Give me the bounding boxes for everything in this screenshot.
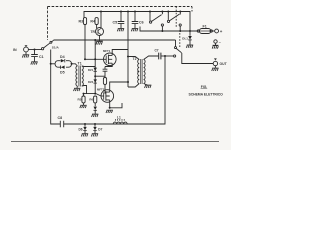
wire zener mid to RC column	[95, 75, 105, 77]
wire +12V rail	[84, 12, 190, 32]
svg-text:T1: T1	[78, 62, 82, 66]
svg-text:DL1: DL1	[182, 36, 188, 40]
svg-text:C8: C8	[58, 116, 63, 120]
ground under IN jack	[22, 55, 29, 58]
wire rail down to TR1	[100, 12, 102, 29]
wire to T2 primary bottom	[128, 84, 139, 88]
dashed enclosure left	[47, 7, 49, 41]
resistor R5	[82, 94, 85, 105]
wire T1 secondary bottom to gate line 2	[82, 86, 87, 94]
transformer T2	[138, 59, 145, 84]
ground under DL1	[186, 45, 193, 48]
ground under R5	[80, 105, 87, 108]
svg-text:C7: C7	[155, 49, 159, 53]
wire MFT1 drain to T2 primary top	[112, 50, 128, 54]
wire bottom return bus	[51, 50, 165, 125]
ground under minus terminal	[212, 45, 218, 48]
connector IN jack J1	[24, 46, 29, 55]
svg-text:S1/A: S1/A	[52, 46, 60, 50]
relay changeover arm to OUT	[175, 47, 214, 64]
wire gate drive vertical	[94, 40, 96, 94]
ground under MFT2	[106, 110, 113, 113]
inductor L1	[113, 119, 127, 124]
node T2 centre tap	[137, 71, 139, 73]
ground under C5	[117, 29, 124, 32]
svg-text:D5: D5	[60, 71, 65, 75]
mosfet MFT2	[101, 90, 114, 103]
svg-text:D6: D6	[79, 128, 83, 132]
zener DZ1	[94, 68, 97, 72]
contact circle relay NO lower	[174, 55, 176, 57]
capacitor C2 in RC column	[103, 67, 108, 78]
wire loop to T1 primary top	[72, 64, 78, 66]
diode D7	[93, 124, 96, 133]
transformer T1	[76, 66, 83, 87]
resistor R4	[95, 18, 98, 29]
wire rail down to T2 primary column	[127, 12, 129, 88]
node rail corner joins fuse line	[189, 30, 191, 32]
svg-text:C5: C5	[113, 21, 118, 25]
diode D5 bottom branch of loop	[55, 64, 72, 69]
svg-text:R4: R4	[90, 20, 95, 24]
node input junction	[34, 49, 36, 51]
capacitor C6	[132, 11, 139, 29]
wire MFT2 drain to T2 primary bottom	[110, 82, 128, 90]
wire gate line MFT2	[84, 94, 102, 96]
svg-text:IN: IN	[13, 48, 17, 52]
svg-text:R3: R3	[79, 20, 84, 24]
node D7 top	[94, 123, 96, 125]
wire MFT1 source to C2 top	[105, 65, 112, 67]
capacitor C7 series	[159, 53, 165, 60]
node T2 primary top	[127, 56, 129, 58]
wire gate line MFT1	[85, 58, 103, 60]
svg-text:T2: T2	[133, 57, 137, 61]
node C7 output	[164, 55, 166, 57]
svg-text:SCHEMA ELETTRICO: SCHEMA ELETTRICO	[189, 92, 224, 96]
wire C7 node to relay NO contact	[165, 55, 173, 57]
ground under C6	[131, 29, 138, 32]
resistor R6	[94, 96, 97, 106]
resistor R3	[83, 18, 86, 60]
wire switched line S1/A to relay	[54, 39, 176, 41]
wire relay contacts to fuse line	[140, 27, 198, 32]
led DL1	[188, 31, 192, 45]
ground under T2 secondary	[145, 85, 152, 88]
node loop left on input drop	[50, 63, 52, 65]
node rail to TR1	[100, 11, 102, 13]
node T2 primary bottom join	[127, 81, 129, 83]
svg-text:R5: R5	[78, 98, 82, 102]
svg-text:F1: F1	[203, 25, 207, 29]
wire T1 secondary top to zener chain	[82, 65, 95, 68]
svg-text:–: –	[219, 40, 221, 44]
terminal plus	[212, 29, 218, 33]
ground under D7	[91, 134, 98, 137]
node gate drive drop	[94, 39, 96, 41]
fuse F1	[197, 29, 212, 34]
jack OUT	[213, 59, 217, 68]
zener DZ2	[94, 79, 97, 83]
mosfet MFT1	[104, 53, 117, 66]
dashed enclosure top	[48, 6, 193, 8]
wire to diode loop	[51, 63, 55, 65]
wire input to switch	[29, 49, 43, 51]
node MFT2 source	[109, 107, 111, 109]
svg-text:+: +	[220, 29, 223, 34]
wire MFT2 source down	[109, 102, 111, 108]
node R3 to gate line	[84, 58, 86, 60]
svg-text:C6: C6	[139, 21, 144, 25]
wire to T2 primary top	[128, 57, 139, 60]
ground under OUT	[212, 68, 219, 71]
node rail to T2 primary feed	[127, 11, 129, 13]
diode DZ3 under R6	[94, 107, 97, 114]
dashed enclosure right stub	[191, 7, 193, 12]
svg-text:D4: D4	[60, 55, 65, 59]
diode D4 top branch of loop	[55, 59, 72, 64]
svg-text:L1: L1	[117, 116, 121, 120]
transistor TR1	[96, 28, 104, 36]
diode D6	[83, 124, 86, 133]
node contact b joins	[179, 30, 181, 32]
node loop right	[71, 63, 73, 65]
node zener mid	[94, 75, 96, 77]
relay contact RL1a	[149, 11, 163, 32]
wire relay NC contact drop	[175, 40, 177, 47]
wire T1 primary bottom to ground	[76, 86, 78, 88]
svg-text:MFT1: MFT1	[103, 49, 111, 53]
ground under C1	[31, 62, 38, 65]
ground under DZ3	[92, 114, 99, 117]
dashed relay actuator link lower	[179, 33, 181, 48]
wire T2 secondary top to C7	[144, 56, 159, 60]
svg-text:DZ2: DZ2	[88, 80, 94, 84]
wire source stub right	[110, 103, 122, 108]
ground under D6	[81, 134, 88, 137]
svg-text:MFT2: MFT2	[97, 88, 105, 92]
svg-text:TR1: TR1	[91, 30, 97, 34]
dashed relay actuator link upper	[175, 7, 177, 29]
terminal minus	[214, 40, 217, 45]
node contact a joins	[161, 30, 163, 32]
svg-text:R6: R6	[89, 98, 93, 102]
svg-text:DZ1: DZ1	[88, 68, 94, 72]
separator rule bottom	[11, 141, 219, 143]
resistor R7 in RC column	[103, 78, 106, 94]
switch S1/A	[42, 40, 54, 50]
ground under T1	[74, 88, 81, 91]
svg-text:OUT: OUT	[220, 62, 228, 66]
svg-text:FIG.: FIG.	[201, 85, 207, 89]
capacitor C8 series on bottom bus	[60, 121, 63, 128]
svg-text:D7: D7	[98, 128, 102, 132]
node D6 top	[84, 123, 86, 125]
capacitor C5	[118, 11, 125, 29]
node gate2 right	[94, 93, 96, 95]
relay contact RL1b	[167, 11, 181, 32]
node gate2 left	[83, 93, 85, 95]
capacitor C1	[31, 50, 38, 62]
ground plug under TR1	[96, 41, 103, 44]
svg-text:C1: C1	[39, 55, 44, 59]
node gate line cross	[94, 58, 96, 60]
wire T2 secondary bottom to ground	[144, 84, 148, 86]
wire TR1 emitter down	[99, 36, 101, 42]
